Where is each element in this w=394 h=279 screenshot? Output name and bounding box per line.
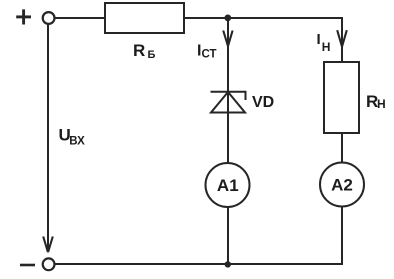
- svg-text:Н: Н: [322, 40, 331, 54]
- wire: left branch vertical (UВХ): [47, 24, 49, 252]
- label UВХ: [59, 126, 86, 148]
- wire: ammeter A2 to bottom rail: [341, 207, 343, 265]
- label RН: [366, 92, 386, 111]
- svg-text:Б: Б: [148, 49, 156, 61]
- node junction dot (bottom): [225, 261, 231, 267]
- wire: resistor RБ to right corner: [184, 17, 342, 19]
- label VD: [252, 94, 274, 111]
- arrow UВХ (voltage direction arrowhead): [43, 237, 53, 253]
- terminal node − (output bottom circle): [43, 258, 55, 270]
- zener diode VD: cathode tick (right end, down): [245, 91, 247, 100]
- plus sign (+ terminal polarity mark): [16, 9, 31, 24]
- wire: top terminal to resistor RБ: [55, 17, 106, 19]
- label A2: [331, 175, 353, 194]
- svg-text:ВХ: ВХ: [69, 136, 85, 148]
- minus sign (− terminal polarity mark): [20, 264, 35, 267]
- node junction dot (top, stabilizer branch): [224, 15, 231, 22]
- zener diode VD: cathode bar: [211, 91, 246, 93]
- svg-text:A1: A1: [217, 176, 239, 195]
- svg-text:СТ: СТ: [202, 48, 217, 60]
- terminal node + (input top circle): [43, 12, 55, 24]
- svg-text:R: R: [133, 41, 145, 60]
- wire: middle branch vertical (node to ammeter A1): [227, 18, 229, 164]
- svg-text:VD: VD: [252, 94, 274, 111]
- wire: RН to ammeter A2: [341, 133, 343, 163]
- svg-text:Н: Н: [377, 97, 386, 111]
- ammeter A1 circle: [206, 163, 250, 207]
- label IН: [317, 31, 331, 54]
- wire: ammeter A1 to bottom rail: [227, 207, 229, 264]
- resistor RН: [324, 62, 359, 133]
- label IСТ: [197, 42, 217, 60]
- zener diode VD: triangle (anode): [211, 92, 245, 113]
- label A1: [217, 176, 239, 195]
- wire: bottom rail horizontal: [55, 263, 343, 265]
- arrow IН (current arrowhead on right branch): [337, 30, 347, 46]
- svg-text:A2: A2: [331, 175, 353, 194]
- ammeter A2 circle: [320, 163, 364, 207]
- svg-text:I: I: [317, 31, 321, 48]
- arrow IСТ (current arrowhead on middle branch): [223, 31, 232, 46]
- label RБ: [133, 41, 156, 61]
- resistor RБ: [105, 3, 184, 33]
- wire: right branch top vertical (corner to RН): [341, 17, 343, 62]
